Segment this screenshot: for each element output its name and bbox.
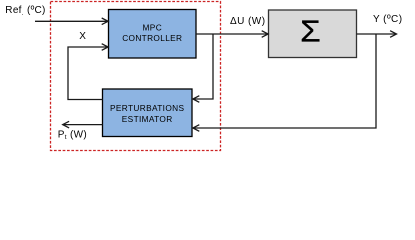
wire W6: Y feedback down and into estimator lower input [193, 34, 376, 131]
svg-text:ESTIMATOR: ESTIMATOR [122, 114, 173, 124]
block U1: MPC CONTROLLER [109, 10, 197, 59]
wire W2: X state feedback from estimator to MPC [68, 44, 108, 100]
wire W3: delta-U from MPC to sigma [196, 31, 268, 38]
wire W7: Pt output arrow out of estimator [63, 121, 103, 128]
svg-text:Σ: Σ [300, 14, 321, 48]
wire W4: delta-U branch down into estimator upper input [193, 34, 213, 102]
svg-text:ΔU (W): ΔU (W) [230, 16, 265, 27]
svg-text:Ref. (ºC): Ref. (ºC) [5, 5, 45, 17]
svg-text:CONTROLLER: CONTROLLER [122, 33, 182, 43]
boundary B1: red dashed subsystem box [51, 2, 221, 151]
svg-text:X: X [79, 31, 86, 42]
block U2: PERTURBATIONS ESTIMATOR [103, 89, 193, 137]
svg-text:PERTURBATIONS: PERTURBATIONS [110, 103, 184, 113]
wire W1: Ref input into MPC [35, 18, 108, 25]
svg-text:Pt (W): Pt (W) [58, 129, 87, 141]
svg-text:Y (ºC): Y (ºC) [373, 14, 403, 25]
wire W5: Y output of sigma [357, 31, 397, 38]
svg-text:MPC: MPC [143, 23, 163, 33]
block U3: summation (sigma) plant block [269, 10, 357, 58]
